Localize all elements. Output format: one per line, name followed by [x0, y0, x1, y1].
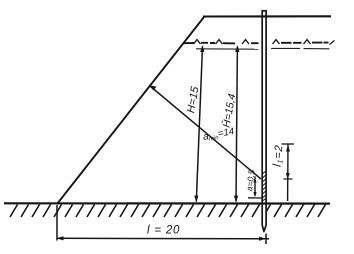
dimension a top arrow: [253, 178, 256, 183]
dimension H-bar bottom arrow: [234, 196, 238, 203]
dimension l1 top arrow: [286, 145, 290, 152]
water table caret 3: [242, 40, 249, 44]
sheet pile wall outline: [262, 11, 266, 232]
extension line at wall: [265, 234, 267, 245]
dimension line l1: [287, 145, 289, 202]
extension line at slope toe: [56, 205, 58, 241]
dimension l=20 left arrow: [56, 236, 64, 240]
ground hatching: [10, 205, 326, 218]
svg-text:l1=2: l1=2: [272, 144, 286, 167]
water table dashes right of wall: [281, 42, 329, 44]
svg-text:l = 20: l = 20: [147, 225, 180, 237]
crest line: [203, 15, 331, 17]
dimension line l=20: [57, 237, 270, 240]
water table underline left: [196, 48, 259, 50]
dimension l1 bottom arrow: [286, 173, 290, 180]
water table caret 4: [273, 40, 280, 44]
water table caret 1: [194, 40, 201, 44]
dimension line a: [254, 177, 256, 197]
dimension a bottom arrow: [253, 192, 256, 197]
leader arrow on slope: [149, 85, 157, 90]
wall embedment hatch band: [262, 171, 267, 202]
dimension line H: [196, 47, 202, 202]
dimension H-bar top arrow: [235, 45, 239, 52]
water table caret 2: [216, 40, 223, 44]
dimension H bottom arrow: [194, 196, 198, 203]
leader line a_min: [150, 86, 261, 179]
slope line: [57, 17, 204, 204]
dimension l=20 right arrow: [259, 237, 267, 241]
water table end tick: [330, 41, 335, 45]
dimension l1 bottom tick: [284, 178, 293, 180]
dimension l1 top tick: [282, 143, 295, 145]
water table caret 5: [304, 40, 311, 44]
water table dashes left of wall: [184, 42, 259, 45]
ground line: [4, 202, 330, 205]
water table underline right: [271, 47, 330, 49]
sheet pile wall body (white fill): [262, 11, 266, 232]
dimension H top arrow: [200, 45, 204, 52]
dimension a bottom tick: [248, 197, 262, 199]
dimension line H-bar: [236, 47, 237, 202]
